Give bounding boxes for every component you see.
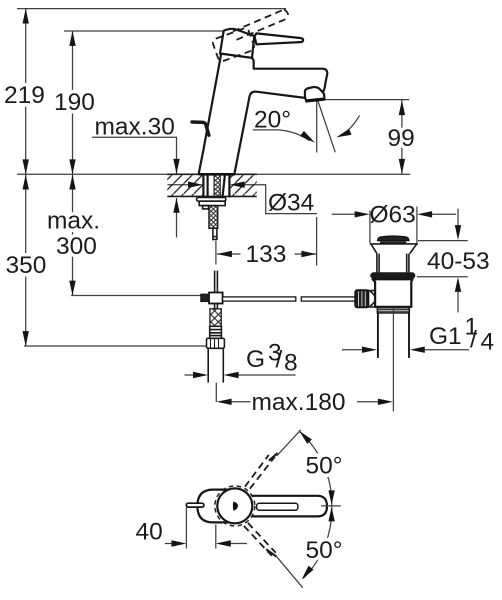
lever centerline extension bbox=[321, 505, 341, 507]
drain tailpipe walls bbox=[378, 313, 409, 358]
hose tube tip bbox=[213, 228, 217, 239]
svg-text:20°: 20° bbox=[254, 107, 291, 134]
counter hole left edge bbox=[202, 175, 204, 197]
dimension 99 spout height bbox=[320, 100, 415, 174]
dimension max.180 bbox=[217, 389, 393, 416]
rod connector small block bbox=[201, 294, 209, 301]
drain ridge band bbox=[377, 308, 409, 313]
dimension arc 50 deg lower bbox=[302, 506, 343, 580]
drain cap dome bbox=[378, 236, 409, 241]
svg-text:219: 219 bbox=[4, 82, 45, 109]
svg-text:max.: max. bbox=[47, 208, 100, 235]
counter bottom edge bbox=[167, 195, 256, 197]
drain side port tube bbox=[363, 291, 375, 307]
svg-text:133: 133 bbox=[246, 241, 287, 268]
drain port flange arc bbox=[370, 291, 375, 306]
svg-text:4: 4 bbox=[481, 329, 495, 356]
dimension 20 deg bbox=[253, 100, 360, 153]
G3/8 tube walls bbox=[208, 348, 223, 382]
dimension arc 50 deg upper bbox=[299, 431, 342, 506]
svg-text:350: 350 bbox=[6, 252, 47, 279]
svg-text:50°: 50° bbox=[306, 537, 343, 564]
horizontal pop-up rod segment 1 bbox=[223, 297, 296, 301]
dimension G3/8 bbox=[185, 340, 298, 379]
top view dashed circle bbox=[215, 486, 255, 526]
counter cross-section left hatch bbox=[167, 175, 203, 195]
aerator tip bbox=[305, 87, 324, 101]
extension line lower 50 bbox=[277, 557, 303, 588]
reference line 190 bbox=[64, 30, 223, 32]
drain knob knurled bbox=[355, 290, 369, 308]
mounting nut bbox=[199, 201, 225, 205]
dimension O34 hole bbox=[168, 182, 318, 217]
counter hole right edge bbox=[228, 175, 230, 197]
svg-text:/: / bbox=[470, 327, 477, 354]
svg-text:40-53: 40-53 bbox=[427, 248, 490, 275]
handle body solid bbox=[220, 29, 254, 58]
threaded rod in hole bbox=[214, 175, 220, 197]
svg-text:max.30: max.30 bbox=[95, 114, 175, 141]
lever rotated dashed edges lower bbox=[244, 523, 277, 557]
drain cap band bbox=[380, 241, 406, 243]
flexible hose braided lower bbox=[210, 309, 221, 327]
lever rotated dashed edges upper bbox=[245, 453, 278, 489]
handle body dashed (raised position) bbox=[212, 27, 256, 62]
svg-text:G1: G1 bbox=[429, 323, 462, 350]
counter top edge thick bbox=[167, 173, 256, 175]
flexible hose braided upper bbox=[209, 206, 218, 229]
svg-text:Ø34: Ø34 bbox=[268, 190, 314, 217]
mounting flange under counter bbox=[197, 198, 226, 202]
dimension 219 bbox=[4, 9, 45, 175]
dimension max.30 counter thickness bbox=[92, 114, 180, 238]
pop-up rod knob on faucet back bbox=[192, 122, 209, 135]
hose center line bbox=[215, 383, 217, 402]
dimension O63 bbox=[332, 202, 456, 244]
handle lever solid bbox=[255, 33, 304, 44]
drain center line bbox=[392, 308, 394, 412]
small step fitting bbox=[203, 206, 209, 209]
top view capsule body bbox=[197, 490, 228, 523]
svg-text:300: 300 bbox=[56, 233, 97, 260]
drain rubber gasket bbox=[370, 272, 415, 279]
shank tube left wall bbox=[207, 175, 209, 197]
svg-text:50°: 50° bbox=[306, 453, 343, 480]
svg-text:8: 8 bbox=[284, 350, 298, 377]
drain funnel sides bbox=[371, 244, 417, 254]
faucet body outline bbox=[199, 54, 328, 175]
svg-text:190: 190 bbox=[54, 89, 95, 116]
top view lever bbox=[253, 496, 328, 517]
shank tube right wall slanted bbox=[223, 175, 225, 196]
dimension 190 bbox=[54, 31, 95, 174]
svg-text:max.180: max.180 bbox=[252, 389, 346, 416]
top view pop-up rod pin bbox=[186, 503, 204, 507]
hose nut knurled bbox=[207, 338, 225, 348]
horizontal pop-up rod segment 2 bbox=[301, 297, 355, 301]
svg-text:Ø63: Ø63 bbox=[370, 202, 416, 229]
counter cross-section right hatch bbox=[230, 175, 256, 195]
drain body bbox=[373, 279, 413, 307]
svg-text:G: G bbox=[246, 346, 265, 373]
svg-text:/: / bbox=[276, 347, 283, 374]
dimension 350 bbox=[6, 174, 207, 346]
drain upper tube walls bbox=[377, 254, 409, 273]
rod connector main block bbox=[209, 293, 223, 304]
svg-text:40: 40 bbox=[136, 519, 163, 546]
drain funnel top edge bbox=[370, 243, 418, 245]
top view cartridge circle bbox=[217, 488, 252, 523]
extension line upper 50 bbox=[277, 430, 301, 456]
hose compression fitting bbox=[210, 326, 222, 338]
pop-up rod vertical upper segment bbox=[215, 271, 218, 293]
reference line top (219 max height) bbox=[17, 8, 286, 10]
dimension G1 1/4 bbox=[342, 314, 494, 356]
dimension 133 bbox=[216, 217, 317, 268]
svg-text:99: 99 bbox=[388, 125, 415, 152]
pop-up rod vertical lower segment bbox=[215, 304, 218, 310]
dimension 40-53 bbox=[417, 209, 490, 313]
dimension 40 bbox=[136, 508, 248, 549]
dimension max.300 bbox=[47, 174, 201, 295]
top view lever slot bbox=[257, 503, 298, 510]
handle lever dashed (raised position) bbox=[233, 10, 288, 40]
counter top reference line bbox=[17, 173, 410, 175]
top view keyhole mark bbox=[233, 502, 238, 511]
